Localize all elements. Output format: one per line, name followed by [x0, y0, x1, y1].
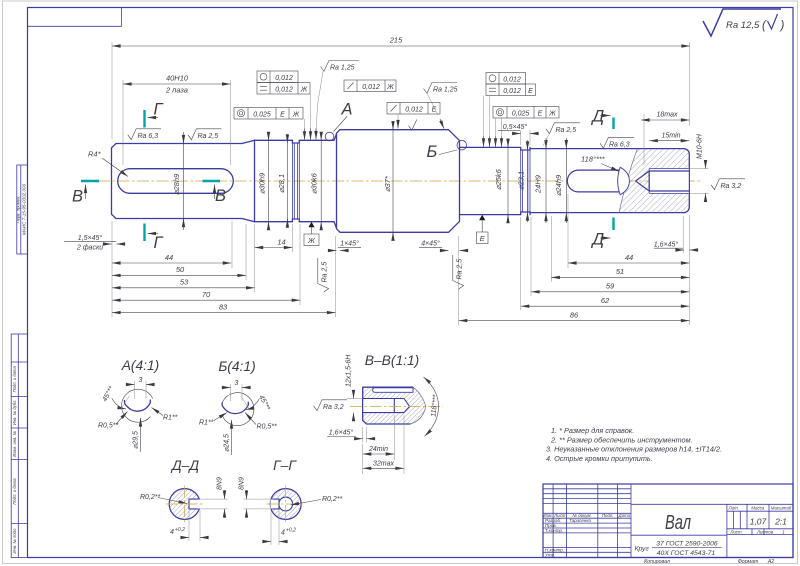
- detail A boundary arc: [121, 389, 152, 422]
- svg-text:R1**: R1**: [163, 415, 178, 422]
- svg-text:14: 14: [277, 237, 285, 246]
- tolerance frame F7 profile 0.012 Zh: [344, 80, 396, 92]
- svg-text:0,012: 0,012: [362, 84, 380, 91]
- roughness Ra 1,25 first with leader: [316, 61, 359, 140]
- dim 18max: [641, 112, 690, 121]
- view mark Д top: [591, 108, 614, 130]
- svg-text:24min: 24min: [368, 446, 388, 453]
- svg-text:Т.контр.: Т.контр.: [545, 528, 563, 533]
- threaded hole M10-6H: [636, 169, 690, 194]
- dim d24h9: [554, 138, 566, 223]
- B-B thread end line: [393, 399, 395, 413]
- top-right general roughness Ra 12,5: [703, 9, 785, 36]
- svg-text:Лист: Лист: [729, 529, 742, 534]
- leaders from frames to d30k6: [305, 94, 311, 140]
- Д-Д centerlines: [166, 503, 204, 505]
- B-B dim 32max: [362, 458, 364, 474]
- svg-text:⌀30h9: ⌀30h9: [258, 172, 267, 194]
- right columns: [727, 504, 769, 557]
- dim d30k6: [310, 132, 322, 230]
- svg-text:0,012: 0,012: [503, 88, 521, 95]
- svg-text:Ra 2,5: Ra 2,5: [198, 133, 219, 140]
- dim d24.5 detail Б: [231, 420, 233, 455]
- fillet circle A: [325, 132, 334, 141]
- svg-text:8N9: 8N9: [217, 477, 224, 490]
- tolerance frame F6 runout 0.025 E Zh right: [493, 107, 559, 119]
- Д-Д dim 4+0.2: [188, 511, 190, 542]
- svg-text:32max: 32max: [373, 460, 395, 467]
- svg-text:Ra 1,25: Ra 1,25: [433, 87, 458, 94]
- svg-text:51: 51: [616, 267, 624, 276]
- svg-text:⌀29,5: ⌀29,5: [133, 431, 140, 449]
- svg-text:⌀23,1: ⌀23,1: [517, 171, 526, 190]
- Д-Д keyway: [189, 499, 201, 509]
- svg-text:⌀28,1: ⌀28,1: [277, 174, 286, 193]
- svg-text:+0,2: +0,2: [286, 528, 296, 534]
- svg-text:4: 4: [281, 530, 285, 537]
- shaft segment d24h9: [530, 149, 684, 213]
- svg-text:А: А: [341, 101, 353, 119]
- B-B dim 1.6x45: [362, 427, 364, 443]
- svg-text:0,025: 0,025: [512, 111, 530, 118]
- svg-text:Е: Е: [528, 88, 533, 95]
- svg-text:Ra 6,3: Ra 6,3: [138, 133, 159, 140]
- shaft segment d37: [340, 130, 449, 233]
- svg-text:Ж: Ж: [307, 236, 316, 245]
- svg-text:0,025: 0,025: [253, 112, 271, 119]
- svg-text:1×45°: 1×45°: [340, 240, 359, 248]
- tolerance frame F8 profile 0.012 E: [387, 103, 440, 129]
- svg-text:+0,2: +0,2: [175, 527, 185, 533]
- svg-text:40Н10: 40Н10: [166, 74, 189, 83]
- name/material divider: [631, 534, 727, 536]
- B-B 118 dim arc: [424, 377, 439, 436]
- svg-text:Г–Г: Г–Г: [273, 458, 297, 473]
- Г-Г dim 4+0.2: [270, 511, 272, 546]
- shaft segment d30h9: [255, 140, 293, 221]
- datum Zh box: [304, 222, 319, 246]
- svg-text:24Н9: 24Н9: [534, 174, 543, 194]
- Г-Г center hole: [279, 497, 293, 511]
- svg-text:Масса: Масса: [751, 506, 765, 511]
- svg-text:118°***: 118°***: [581, 155, 606, 164]
- tolerance frame F1 circularity 0.012: [257, 71, 298, 83]
- svg-text:Е: Е: [538, 111, 543, 118]
- svg-text:Круг: Круг: [635, 546, 650, 553]
- svg-text:86: 86: [570, 310, 579, 319]
- dim 1.6x45 right end: [654, 240, 698, 250]
- svg-text:4. Острые кромки притупить.: 4. Острые кромки притупить.: [546, 454, 653, 463]
- dim 1x45: [329, 240, 362, 251]
- roughness Ra 2,5 rotated on ext line left: [318, 258, 329, 292]
- roughness Ra 6,3 left: [128, 129, 161, 140]
- svg-text:R1**: R1**: [199, 420, 214, 427]
- svg-text:2 паза: 2 паза: [165, 86, 188, 95]
- dim 24N9: [534, 138, 547, 223]
- svg-text:Тарасенко: Тарасенко: [569, 518, 592, 523]
- svg-text:37 ГОСТ 2590-2006: 37 ГОСТ 2590-2006: [656, 541, 718, 548]
- roughness Ra 3,2 at M10: [711, 179, 745, 190]
- svg-text:1,6×45°: 1,6×45°: [329, 429, 354, 437]
- roughness Ra 6,3 right: [600, 137, 634, 148]
- svg-text:Лит.: Лит.: [728, 506, 739, 511]
- B-B dim 24min: [362, 444, 364, 460]
- svg-text:3: 3: [139, 377, 143, 384]
- B-B outline: [363, 387, 413, 424]
- svg-text:R0,2**: R0,2**: [322, 496, 343, 503]
- svg-text:Инв. № подл.: Инв. № подл.: [12, 528, 17, 554]
- svg-text:Б(4:1): Б(4:1): [218, 359, 255, 374]
- B-B axis: [350, 406, 443, 408]
- svg-text:Ra 3,2: Ra 3,2: [721, 183, 742, 190]
- roughness Ra 2,5 left: [188, 129, 222, 140]
- svg-text:Д: Д: [591, 108, 605, 126]
- svg-text:215: 215: [389, 36, 403, 45]
- svg-text:⌀37*: ⌀37*: [383, 175, 392, 192]
- title block upper thin rows: [543, 489, 631, 504]
- leaders from right frames to d25k6: [484, 96, 502, 147]
- svg-text:1. * Размер для справок.: 1. * Размер для справок.: [551, 426, 634, 435]
- svg-text:1,5×45°: 1,5×45°: [78, 234, 103, 242]
- svg-text:3. Неуказанные отклонения раз: 3. Неуказанные отклонения размеров h14, …: [546, 445, 722, 454]
- right end chamfer 1.6x45 and face: [684, 149, 689, 213]
- callout Б: [427, 143, 458, 161]
- dim 83: [112, 302, 336, 312]
- dim d37: [383, 121, 393, 240]
- svg-text:Копировал: Копировал: [644, 559, 670, 565]
- svg-text:44: 44: [165, 253, 173, 262]
- svg-text:12х1,5-6Н: 12х1,5-6Н: [346, 354, 353, 387]
- svg-text:1,6×45°: 1,6×45°: [654, 240, 679, 248]
- svg-text:М10-6Н: М10-6Н: [697, 133, 704, 159]
- title block header and signature rows: [543, 513, 631, 552]
- shoulder to d37: [334, 130, 340, 233]
- svg-text:В: В: [72, 188, 83, 206]
- dim 3 detail A: [134, 381, 136, 399]
- svg-text:3: 3: [235, 380, 239, 387]
- Д-Д circle hatched: [169, 489, 200, 520]
- tolerance frame F3 runout 0.025 E Zh: [234, 108, 303, 120]
- svg-text:2:1: 2:1: [774, 517, 787, 527]
- tolerance frame F2 parallelism 0.012 Zh: [257, 83, 310, 95]
- Г-Г keyway: [271, 499, 280, 509]
- svg-text:Ra 1,25: Ra 1,25: [330, 65, 355, 72]
- Г-Г centerlines: [267, 503, 306, 505]
- svg-text:Ra 2,5: Ra 2,5: [322, 262, 329, 283]
- svg-text:Подп. и дата: Подп. и дата: [12, 366, 17, 393]
- dim 62: [521, 296, 690, 306]
- dim 44 left: [112, 253, 231, 263]
- svg-text:83: 83: [219, 302, 228, 311]
- svg-text:⌀25k6: ⌀25k6: [494, 168, 503, 190]
- svg-text:Листов: Листов: [756, 529, 774, 534]
- svg-text:1,07: 1,07: [750, 517, 767, 527]
- svg-text:Д: Д: [591, 231, 605, 249]
- keyway slot right: [567, 170, 620, 192]
- dim 44 right: [568, 253, 690, 263]
- Г-Г dim 8N9: [244, 498, 274, 500]
- Д-Д dim 8N9: [197, 498, 228, 500]
- shaft segment d28h9: [112, 144, 243, 219]
- dim 53: [112, 278, 255, 288]
- svg-text:Ra 3,2: Ra 3,2: [323, 404, 344, 411]
- view mark В left: [72, 181, 99, 206]
- svg-text:Е: Е: [432, 107, 437, 114]
- svg-text:70: 70: [202, 290, 211, 299]
- svg-text:Г: Г: [154, 101, 164, 119]
- B-B bore white: [363, 399, 410, 413]
- svg-text:40Х ГОСТ 4543-71: 40Х ГОСТ 4543-71: [657, 550, 716, 557]
- label R4* with leader: [88, 150, 128, 177]
- svg-text:53: 53: [180, 278, 189, 287]
- left margin upper box: [16, 165, 28, 254]
- B-B right bulge boundary: [410, 387, 426, 424]
- groove d28.1: [292, 140, 299, 221]
- svg-text:Дата: Дата: [618, 513, 631, 518]
- callout A: [334, 101, 353, 132]
- keyway slot left (40H10): [118, 169, 234, 194]
- svg-text:Подп.: Подп.: [602, 513, 614, 518]
- main axis centerline: [98, 180, 700, 182]
- dim M10-6H vertical: [697, 133, 706, 201]
- svg-text:Вал: Вал: [665, 512, 691, 534]
- shaft segment d25k6: [460, 147, 521, 214]
- detail Б groove profile: [222, 402, 248, 413]
- svg-text:Утв.: Утв.: [545, 552, 555, 557]
- view mark В right: [203, 181, 227, 205]
- svg-text:44: 44: [625, 253, 633, 262]
- dim d25k6: [494, 138, 508, 223]
- dim 215: [112, 36, 690, 47]
- svg-text:59: 59: [606, 282, 615, 291]
- svg-text:4: 4: [170, 529, 174, 536]
- svg-text:Подп. и дата: Подп. и дата: [12, 478, 17, 505]
- svg-text:Взам. инв. №: Взам. инв. №: [12, 430, 17, 456]
- Г-Г circle hatched: [270, 489, 301, 520]
- svg-text:Ж: Ж: [300, 87, 308, 94]
- local section hatch right end: [619, 149, 689, 213]
- svg-text:В: В: [215, 187, 226, 205]
- dim 14: [255, 237, 293, 247]
- title block verticals left table: [553, 484, 631, 558]
- svg-text:Д–Д: Д–Д: [170, 458, 199, 473]
- svg-text:0,5×45°: 0,5×45°: [503, 123, 528, 131]
- dim 40H10 2 paza: [123, 74, 231, 95]
- view mark Д bottom: [591, 218, 614, 249]
- dim d29.5 detail A: [140, 418, 142, 452]
- svg-text:Ra 12,5: Ra 12,5: [726, 20, 760, 31]
- view mark Г bottom: [145, 224, 164, 253]
- svg-text:Ra 6,3: Ra 6,3: [609, 141, 630, 148]
- surface check mark on d37: [409, 120, 417, 131]
- svg-text:0,012: 0,012: [275, 87, 293, 94]
- svg-text:2 фаски: 2 фаски: [76, 245, 103, 252]
- dim d23.1: [517, 140, 528, 222]
- svg-text:50: 50: [176, 265, 185, 274]
- svg-text:R0,5**: R0,5**: [257, 424, 278, 431]
- dim 51: [551, 267, 689, 277]
- designation cell bottom: [631, 503, 793, 505]
- svg-text:Масштаб: Масштаб: [771, 506, 792, 511]
- svg-text:2. ** Размер обеспечить инстр: 2. ** Размер обеспечить инструментом.: [550, 435, 693, 444]
- svg-text:4×45°: 4×45°: [421, 240, 440, 248]
- svg-text:Ra 2,5: Ra 2,5: [556, 127, 577, 134]
- svg-text:⌀24,5: ⌀24,5: [224, 434, 231, 452]
- svg-text:Ж: Ж: [548, 111, 556, 118]
- svg-text:А2: А2: [767, 559, 774, 565]
- fillet circle B: [457, 140, 467, 150]
- material: [635, 541, 723, 558]
- svg-text:R0,2**: R0,2**: [140, 494, 161, 501]
- detail A groove profile: [125, 400, 151, 411]
- roughness Ra 1,25 second with leader: [424, 83, 458, 129]
- svg-text:Перв. примен.: Перв. примен.: [16, 196, 21, 224]
- technical requirements notes: [546, 426, 722, 463]
- svg-text:⌀30k6: ⌀30k6: [310, 172, 319, 194]
- roughness Ra 2,5 right with leader: [543, 123, 580, 146]
- svg-text:15min: 15min: [661, 132, 680, 139]
- svg-text:0,012: 0,012: [275, 75, 293, 82]
- svg-text:0,012: 0,012: [503, 77, 521, 84]
- view mark Г top: [145, 101, 164, 128]
- dim d28h9: [172, 132, 184, 230]
- right chamfer 4x45 and shoulder face: [449, 130, 460, 233]
- svg-text:R0,5**: R0,5**: [98, 423, 119, 430]
- title block outer: [543, 484, 793, 558]
- extension lines: [112, 42, 709, 325]
- svg-text:В–В(1:1): В–В(1:1): [365, 353, 419, 368]
- svg-text:Формат: Формат: [738, 559, 759, 565]
- dim 70: [112, 290, 300, 300]
- B-B hatched body: [363, 387, 426, 424]
- break line: [619, 149, 638, 213]
- groove d23.1: [521, 147, 530, 214]
- dim 3 detail Б: [230, 384, 232, 401]
- dim 1.5x45 2 faski: [64, 234, 125, 252]
- roughness Ra 2,5 rotated on ext line right: [453, 255, 464, 289]
- dim d28.1: [277, 134, 287, 228]
- label 118 deg main view: [581, 155, 620, 172]
- tolerance frame F5 parallelism 0.012 E right: [486, 84, 536, 96]
- svg-text:МАИС 7-15-95-0302.000: МАИС 7-15-95-0302.000: [21, 183, 26, 235]
- svg-text:18max: 18max: [656, 112, 678, 119]
- dim 4x45: [419, 240, 468, 251]
- svg-text:А(4:1): А(4:1): [121, 358, 160, 373]
- svg-text:8N9: 8N9: [239, 477, 246, 490]
- svg-text:⌀24h9: ⌀24h9: [554, 174, 563, 196]
- drill cone lens at slot end: [618, 167, 630, 194]
- dim 15min: [649, 132, 689, 140]
- cone transition 28-30: [242, 140, 255, 221]
- svg-text:Инв. № дубл.: Инв. № дубл.: [12, 399, 17, 425]
- svg-text:⌀28h9: ⌀28h9: [172, 173, 181, 195]
- datum E box: [477, 215, 489, 244]
- svg-text:Г: Г: [154, 234, 164, 252]
- svg-text:Ж: Ж: [386, 84, 394, 91]
- B-B Ra 3,2: [314, 400, 348, 411]
- svg-text:0,012: 0,012: [405, 107, 423, 114]
- dim 59: [531, 282, 690, 292]
- svg-text:Ж: Ж: [292, 112, 300, 119]
- dim 0.5x45 groove chamfer: [498, 123, 538, 134]
- svg-text:62: 62: [601, 296, 610, 305]
- shaft segment d30k6: [299, 140, 334, 221]
- svg-text:Е: Е: [280, 112, 285, 119]
- left margin bottom stack: [11, 334, 27, 558]
- dim d30h9: [258, 132, 269, 230]
- top-left designation box: [28, 8, 122, 27]
- svg-text:Ra 2,5: Ra 2,5: [457, 259, 464, 280]
- B-B thread relief band: [373, 388, 413, 393]
- dim 50: [112, 265, 246, 275]
- dim 86: [459, 310, 690, 320]
- svg-text:Б: Б: [427, 143, 438, 161]
- tolerance frame F4 circularity 0.012 right: [486, 73, 526, 85]
- svg-text:R4*: R4*: [88, 150, 102, 159]
- detail Б boundary arc: [222, 393, 254, 426]
